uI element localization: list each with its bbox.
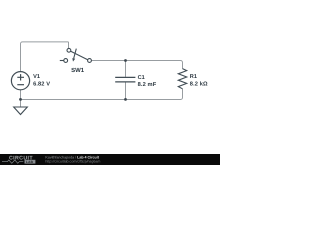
svg-text:R1: R1 — [190, 74, 197, 80]
svg-text:http://circuitlab.com/c/f5zjvh: http://circuitlab.com/c/f5zjvhsg6am — [45, 160, 100, 164]
svg-text:8.2 mF: 8.2 mF — [138, 82, 157, 88]
svg-text:LAB: LAB — [26, 160, 34, 164]
svg-text:6.82 V: 6.82 V — [33, 82, 50, 88]
svg-text:8.2 kΩ: 8.2 kΩ — [190, 81, 208, 88]
svg-text:V1: V1 — [33, 74, 40, 80]
svg-text:C1: C1 — [138, 75, 145, 81]
svg-text:SW1: SW1 — [71, 67, 85, 74]
